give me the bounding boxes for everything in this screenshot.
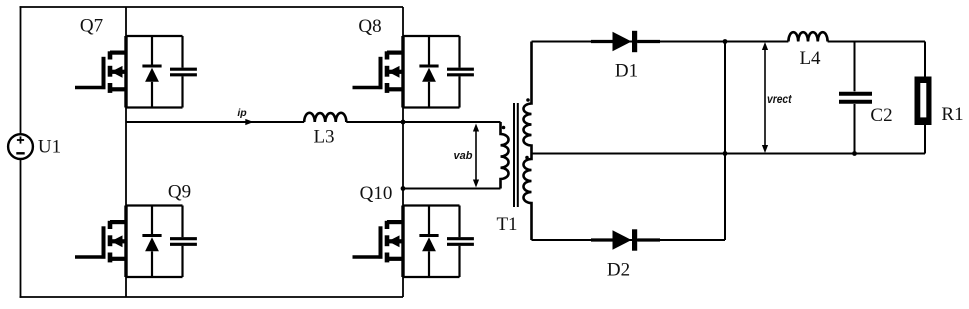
- svg-text:ip: ip: [237, 107, 247, 119]
- wire: bottom rail of bridge: [20, 296, 404, 298]
- resistor R1: [915, 42, 932, 154]
- svg-text:C2: C2: [870, 105, 892, 126]
- diode D2: [591, 229, 660, 250]
- svg-text:Q10: Q10: [360, 183, 393, 204]
- polarity dot primary: [502, 126, 506, 130]
- inductor L4: [788, 32, 827, 41]
- svg-text:vab: vab: [454, 150, 473, 162]
- svg-text:D1: D1: [615, 61, 638, 82]
- transistor Q8: [353, 36, 404, 108]
- diode D1: [591, 31, 660, 52]
- polarity dot secondary top: [526, 98, 530, 102]
- wire: secondary top to D1 and on to L4: [532, 41, 789, 43]
- wire: center tap return rail: [532, 153, 926, 155]
- body diode of Q10: [419, 206, 438, 278]
- transistor Q9: [75, 206, 126, 278]
- wire: right bridge leg (Q8/Q10 drain-source column): [402, 7, 404, 297]
- wire: left rail lower segment: [20, 159, 22, 298]
- body diode of Q9: [142, 206, 161, 278]
- wire: mid node A to L3: [126, 121, 304, 123]
- voltage source U1: [8, 134, 33, 159]
- transformer T1 primary winding: [501, 122, 509, 189]
- svg-text:R1: R1: [941, 104, 963, 125]
- inductor L3: [304, 113, 346, 122]
- capacitor C2: [839, 42, 872, 154]
- parallel capacitor of Q10: [403, 206, 474, 278]
- svg-text:L4: L4: [799, 48, 821, 69]
- svg-text:Q9: Q9: [168, 182, 191, 203]
- wire: L4 to R1 top corner: [828, 41, 925, 43]
- current arrow ip: [245, 119, 253, 125]
- svg-text:L3: L3: [313, 127, 334, 148]
- voltage arrow vab: [473, 124, 479, 188]
- svg-text:D2: D2: [607, 260, 630, 281]
- junction node at Q8 source / L3: [401, 120, 406, 125]
- transformer T1 secondary windings: [524, 42, 532, 241]
- junction node center tap / rectifier column: [723, 151, 728, 156]
- junction node at Q10 drain / primary bottom: [401, 186, 406, 191]
- junction node rectifier output / top wire: [723, 39, 728, 44]
- wire: top rail of bridge: [20, 6, 404, 8]
- parallel capacitor of Q7: [126, 36, 197, 108]
- svg-text:Q8: Q8: [358, 16, 381, 37]
- wire: left rail upper segment: [20, 6, 22, 134]
- wire: D2 row: [532, 239, 726, 241]
- svg-text:T1: T1: [496, 214, 517, 235]
- transistor Q7: [75, 36, 126, 108]
- svg-text:vrect: vrect: [767, 92, 792, 106]
- voltage arrow vrect: [762, 42, 768, 153]
- parallel capacitor of Q8: [403, 36, 474, 108]
- wire: left bridge leg (Q7/Q9 drain-source column): [125, 7, 127, 297]
- transformer T1 core: [514, 103, 518, 207]
- wire: L3 to transformer primary top: [346, 121, 500, 123]
- polarity dot secondary bottom: [525, 156, 529, 160]
- body diode of Q7: [142, 36, 161, 108]
- svg-text:Q7: Q7: [80, 16, 103, 37]
- parallel capacitor of Q9: [126, 206, 197, 278]
- junction node C2 bottom: [852, 151, 857, 156]
- wire: primary bottom lead: [403, 188, 501, 190]
- wire: rectifier output vertical joining D1 and D2: [724, 42, 726, 241]
- svg-text:U1: U1: [38, 137, 61, 158]
- transistor Q10: [353, 206, 404, 278]
- body diode of Q8: [419, 36, 438, 108]
